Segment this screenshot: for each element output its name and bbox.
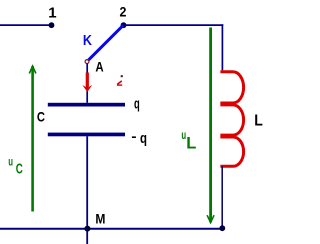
svg-text:u: u — [8, 156, 13, 169]
node bottom-right junction dot — [219, 225, 225, 231]
wire right vertical down to inductor — [221, 24, 223, 70]
capacitor C top plate — [48, 103, 125, 107]
wire from contact A down to capacitor top plate — [86, 63, 88, 102]
current label i (red italic) — [117, 75, 123, 85]
voltage arrow uL pointing down (green) — [207, 28, 214, 223]
svg-text:q: q — [134, 95, 140, 112]
node 2 — [121, 22, 127, 28]
wire inductor bottom lead down to bottom-right node — [221, 166, 223, 228]
svg-text:C: C — [37, 109, 45, 124]
node M junction dot — [84, 226, 90, 232]
wire capacitor bottom lead down through node M to bottom edge — [86, 136, 88, 244]
wire top from node 2 to top-right corner — [124, 24, 224, 26]
svg-text:C: C — [16, 160, 23, 177]
switch K blade — [88, 25, 123, 60]
capacitor C bottom plate — [48, 133, 125, 137]
voltage arrow uC pointing up (green) — [29, 66, 36, 212]
label uC (green) — [8, 156, 23, 177]
switch contact circle at A — [85, 60, 89, 64]
svg-text:L: L — [186, 135, 196, 153]
svg-text:q: q — [140, 130, 147, 147]
svg-text:M: M — [95, 211, 105, 227]
current arrow red pointing down — [82, 73, 92, 93]
label -q (charge on bottom plate) — [132, 130, 147, 147]
node 1 — [49, 22, 55, 28]
label uL (green) — [181, 130, 196, 153]
svg-text:2: 2 — [120, 4, 127, 20]
svg-text:L: L — [254, 112, 263, 130]
svg-text:1: 1 — [48, 4, 56, 21]
svg-text:A: A — [95, 60, 103, 75]
wire top-left from left edge to node 1 — [0, 24, 52, 26]
wire bottom from left edge to bottom-right node — [0, 228, 222, 230]
svg-text:K: K — [83, 31, 92, 48]
inductor L coil (three red bumps) — [220, 72, 243, 167]
